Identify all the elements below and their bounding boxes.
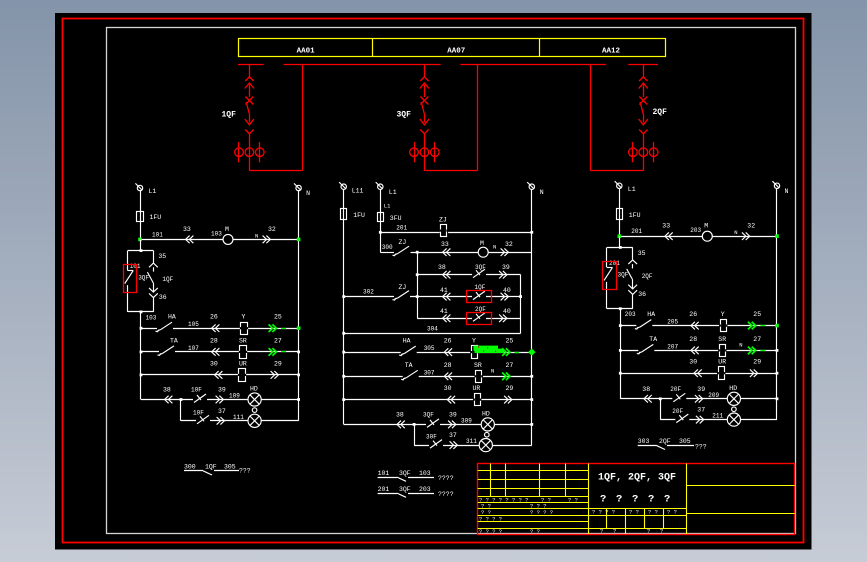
row Y: green node left bbox=[297, 326, 301, 330]
title block bottom middle texts bbox=[600, 528, 663, 535]
row UR middle: node bbox=[530, 398, 533, 401]
svg-text:????: ???? bbox=[438, 491, 454, 498]
title block middle verticals lower bbox=[607, 509, 664, 534]
svg-text:N: N bbox=[734, 229, 737, 236]
svg-text:28: 28 bbox=[444, 362, 452, 369]
title block right section horizontals bbox=[686, 486, 795, 514]
fuse 1FU middle bbox=[341, 209, 366, 220]
fuse 3FU middle bbox=[378, 213, 402, 223]
svg-text:203: 203 bbox=[690, 227, 701, 234]
row UR: coil UR right bbox=[619, 359, 777, 380]
svg-text:27: 27 bbox=[753, 336, 761, 343]
row SR: green arrow 27 left bbox=[269, 337, 286, 355]
motor M left bbox=[223, 226, 233, 245]
svg-text:?: ? bbox=[600, 528, 603, 535]
svg-text:307: 307 bbox=[424, 369, 435, 376]
svg-text:UR: UR bbox=[473, 385, 481, 392]
svg-text:1FU: 1FU bbox=[629, 212, 641, 219]
feeder drop 3QF bbox=[420, 64, 429, 142]
row lamp2: contact 10F left bbox=[193, 409, 210, 424]
svg-text:209: 209 bbox=[708, 392, 719, 399]
title block small texts row2 bbox=[481, 503, 547, 510]
svg-text:39: 39 bbox=[449, 411, 457, 418]
CT circles feeder 1 bbox=[235, 142, 264, 162]
svg-text:3QF: 3QF bbox=[423, 411, 434, 418]
svg-text:? ? ? ?: ? ? ? ? bbox=[479, 528, 502, 535]
row lamp2 middle: branch bbox=[414, 424, 532, 445]
row HD middle: junction bbox=[413, 423, 416, 426]
left bottom note 300 1QF 305 bbox=[184, 464, 251, 476]
svg-text:1FU: 1FU bbox=[353, 212, 365, 219]
svg-text:305: 305 bbox=[679, 438, 691, 445]
svg-text:207: 207 bbox=[667, 343, 678, 350]
svg-text:305: 305 bbox=[224, 464, 236, 471]
svg-text:? ?: ? ? bbox=[667, 509, 677, 516]
svg-text:303: 303 bbox=[638, 438, 650, 445]
svg-text:???: ??? bbox=[239, 468, 251, 475]
row SR: coil SR left bbox=[210, 337, 247, 358]
svg-text:41: 41 bbox=[440, 287, 448, 294]
svg-text:TA: TA bbox=[649, 336, 657, 343]
svg-text:39: 39 bbox=[697, 386, 705, 393]
svg-text:3QF: 3QF bbox=[475, 264, 486, 271]
label 2QF bbox=[653, 108, 668, 117]
main wire 101 left bbox=[140, 226, 299, 243]
row M middle: motor bbox=[411, 240, 532, 257]
svg-text:311: 311 bbox=[466, 438, 477, 445]
label AA01 bbox=[297, 47, 316, 55]
svg-text:201: 201 bbox=[378, 486, 390, 493]
svg-text:29: 29 bbox=[753, 359, 761, 366]
svg-text:TA: TA bbox=[170, 337, 178, 344]
row SR: node right bbox=[776, 349, 779, 352]
svg-text:37: 37 bbox=[697, 407, 705, 414]
branch merge node 203 right bbox=[607, 307, 636, 399]
svg-text:203: 203 bbox=[419, 486, 431, 493]
svg-text:211: 211 bbox=[712, 413, 723, 420]
CT circles feeder 3 bbox=[410, 142, 439, 162]
svg-text:305: 305 bbox=[424, 345, 435, 352]
inner white border frame bbox=[107, 28, 796, 534]
row SR: contact TA right bbox=[619, 336, 777, 354]
svg-text:25: 25 bbox=[506, 338, 514, 345]
svg-text:????: ???? bbox=[438, 475, 454, 482]
bus segment 3 bbox=[460, 64, 606, 66]
title block middle small texts bbox=[592, 509, 677, 516]
svg-text:? ? ? ?: ? ? ? ? bbox=[530, 509, 553, 516]
row Y: coil Y left bbox=[210, 314, 248, 335]
svg-text:? ?: ? ? bbox=[648, 509, 658, 516]
svg-text:20F: 20F bbox=[670, 386, 681, 393]
row SR middle: green arrow 27 bbox=[502, 362, 513, 380]
title block horizontal row4 bbox=[478, 528, 686, 530]
svg-text:1FU: 1FU bbox=[150, 214, 162, 221]
title block left grid verticals bbox=[491, 464, 566, 497]
svg-text:33: 33 bbox=[662, 223, 670, 230]
svg-text:? ? ? ?: ? ? ? ? bbox=[592, 509, 615, 516]
svg-text:30: 30 bbox=[444, 385, 452, 392]
svg-text:AA07: AA07 bbox=[447, 47, 465, 55]
svg-text:103: 103 bbox=[211, 230, 222, 237]
svg-text:300: 300 bbox=[382, 244, 393, 251]
breaker aux contact 3QF right bbox=[604, 247, 629, 308]
contact chain 1QF left bbox=[147, 251, 173, 312]
lamp terminal circle middle bbox=[485, 432, 490, 437]
svg-text:38: 38 bbox=[396, 411, 404, 418]
svg-text:304: 304 bbox=[427, 325, 438, 332]
title block small texts row4 bbox=[479, 516, 502, 523]
svg-text:29: 29 bbox=[506, 385, 514, 392]
svg-text:AA12: AA12 bbox=[602, 47, 621, 55]
row Y middle: green arrow 25 bbox=[502, 338, 519, 356]
title block horizontal row3 bbox=[478, 521, 589, 523]
svg-text:27: 27 bbox=[506, 362, 514, 369]
row HD middle: node bbox=[530, 423, 533, 426]
svg-text:HA: HA bbox=[647, 311, 655, 318]
terminal N left bbox=[294, 183, 310, 197]
svg-text:309: 309 bbox=[461, 417, 472, 424]
terminal L1 left bbox=[135, 183, 156, 195]
svg-text:32: 32 bbox=[268, 226, 276, 233]
terminal N right bbox=[772, 181, 788, 195]
row lamp2: contact 20F right bbox=[672, 408, 689, 423]
row UR middle: coil UR bbox=[342, 385, 532, 406]
svg-text:33: 33 bbox=[441, 241, 449, 248]
svg-text:SR: SR bbox=[474, 362, 482, 369]
row lamp2 middle: contact 3QF bbox=[426, 434, 443, 449]
svg-text:2QF: 2QF bbox=[659, 438, 671, 445]
rail N middle bbox=[531, 189, 533, 445]
row Y middle: coil Y bbox=[444, 338, 479, 359]
svg-text:35: 35 bbox=[638, 250, 646, 257]
lamp terminal circle right bbox=[732, 407, 737, 412]
lamp 2 middle bbox=[479, 439, 492, 452]
svg-text:39: 39 bbox=[502, 264, 510, 271]
svg-text:40: 40 bbox=[503, 287, 511, 294]
wire 304 middle bbox=[342, 325, 520, 334]
svg-text:205: 205 bbox=[667, 319, 678, 326]
rail N left bbox=[298, 191, 300, 421]
svg-text:ZJ: ZJ bbox=[439, 217, 447, 224]
svg-text:30: 30 bbox=[689, 359, 697, 366]
rail N right bbox=[776, 189, 778, 420]
row HD: contact 20F right bbox=[670, 386, 686, 402]
label AA07 bbox=[447, 47, 465, 55]
svg-text:Y: Y bbox=[242, 314, 246, 321]
svg-text:Y: Y bbox=[721, 311, 725, 318]
bus segment 4 bbox=[628, 64, 658, 66]
svg-text:40: 40 bbox=[503, 308, 511, 315]
fuse 1FU right bbox=[617, 209, 641, 220]
feeder drop 1QF bbox=[245, 64, 254, 142]
rail L11 middle bbox=[343, 189, 345, 424]
svg-text:26: 26 bbox=[444, 338, 452, 345]
svg-text:?: ? bbox=[660, 528, 663, 535]
row lamp2: arrow 37 right bbox=[696, 407, 724, 424]
svg-text:37: 37 bbox=[449, 432, 457, 439]
feeder 2 loop wires bbox=[591, 64, 644, 170]
row 3QF middle bbox=[416, 264, 521, 278]
svg-text:3QF: 3QF bbox=[399, 470, 411, 477]
row HD: arrow 39 right bbox=[695, 386, 720, 403]
svg-text:HA: HA bbox=[403, 338, 411, 345]
label AA12 bbox=[602, 47, 621, 55]
svg-text:36: 36 bbox=[159, 294, 167, 301]
svg-text:10F: 10F bbox=[193, 409, 204, 416]
row UR: node left bbox=[297, 374, 300, 377]
svg-text:HD: HD bbox=[482, 410, 490, 417]
svg-text:1QF, 2QF, 3QF: 1QF, 2QF, 3QF bbox=[598, 473, 676, 484]
row Y middle: contact HA bbox=[342, 338, 532, 356]
title block red border bbox=[478, 464, 795, 535]
branch merge node 103 left bbox=[128, 311, 157, 400]
row Y middle: green diamond node bbox=[528, 348, 535, 355]
svg-text:203: 203 bbox=[625, 311, 636, 318]
svg-text:N: N bbox=[255, 232, 258, 239]
svg-text:L1: L1 bbox=[149, 188, 157, 195]
title block vertical divider big cell left bbox=[588, 464, 590, 535]
svg-text:N: N bbox=[493, 244, 496, 251]
title block small texts row5 bbox=[479, 528, 540, 535]
red highlight box 1QF middle bbox=[467, 291, 492, 303]
svg-text:101: 101 bbox=[152, 231, 163, 238]
bus segment 1 bbox=[238, 64, 264, 66]
red highlight box left bbox=[124, 265, 137, 293]
row Y: coil Y right bbox=[689, 311, 727, 332]
green node right right bbox=[775, 234, 779, 238]
right bottom note 303 2QF 305 bbox=[638, 438, 707, 451]
svg-text:N: N bbox=[306, 190, 310, 197]
row SR: green arrow 27 right bbox=[748, 336, 765, 354]
svg-text:L1: L1 bbox=[384, 203, 391, 210]
green node left right bbox=[618, 234, 622, 238]
svg-text:? ?: ? ? bbox=[629, 509, 639, 516]
svg-text:35: 35 bbox=[158, 253, 166, 260]
svg-text:32: 32 bbox=[505, 241, 513, 248]
svg-text:?: ? bbox=[632, 494, 638, 506]
fuse 1FU left bbox=[137, 212, 162, 222]
lamp HD left bbox=[248, 386, 261, 407]
svg-text:UR: UR bbox=[239, 360, 247, 367]
outer red border frame bbox=[63, 19, 804, 543]
svg-text:39: 39 bbox=[218, 387, 226, 394]
svg-text:L11: L11 bbox=[352, 188, 364, 195]
row HD: junction left bbox=[180, 398, 183, 401]
terminal L1 right bbox=[615, 181, 636, 193]
svg-text:37: 37 bbox=[218, 408, 226, 415]
terminal L1 middle bbox=[376, 182, 397, 209]
title block vertical divider big cell right bbox=[686, 464, 688, 535]
title block horizontal lower bbox=[478, 515, 686, 517]
svg-text:?: ? bbox=[647, 528, 650, 535]
row SR middle: contact TA bbox=[342, 362, 532, 380]
row UR: coil UR left bbox=[140, 360, 299, 381]
svg-text:N: N bbox=[785, 188, 789, 195]
contact chain 2QF right bbox=[627, 247, 653, 308]
svg-text:32: 32 bbox=[747, 223, 755, 230]
svg-text:N: N bbox=[739, 341, 742, 348]
svg-text:3FU: 3FU bbox=[390, 215, 402, 222]
svg-text:ZJ: ZJ bbox=[399, 284, 407, 291]
title block small texts row1 bbox=[479, 496, 578, 503]
svg-text:? ? ? ?: ? ? ? ? bbox=[479, 516, 502, 523]
rail L1 left bbox=[140, 191, 142, 239]
svg-text:103: 103 bbox=[146, 314, 157, 321]
svg-text:1QF: 1QF bbox=[205, 464, 217, 471]
lamp HD right bbox=[727, 385, 740, 406]
breaker aux contact 3QF left bbox=[125, 251, 150, 312]
svg-text:20F: 20F bbox=[672, 408, 683, 415]
row SR: contact TA left bbox=[140, 337, 299, 355]
svg-text:?: ? bbox=[600, 494, 606, 506]
svg-text:10F: 10F bbox=[191, 387, 202, 394]
svg-text:29: 29 bbox=[274, 360, 282, 367]
row lamp2 middle: arrow 37 bbox=[449, 432, 477, 449]
row HD: contact 10F left bbox=[191, 387, 207, 403]
svg-text:N: N bbox=[491, 367, 494, 374]
svg-text:2QF: 2QF bbox=[642, 273, 653, 280]
terminal N middle bbox=[527, 182, 544, 196]
svg-text:27: 27 bbox=[274, 337, 282, 344]
label 1QF bbox=[222, 111, 237, 120]
row SR: node left bbox=[297, 351, 300, 354]
svg-text:111: 111 bbox=[233, 414, 244, 421]
feeder drop 2QF bbox=[639, 64, 648, 142]
title block small texts row3 bbox=[481, 509, 553, 516]
svg-text:33: 33 bbox=[183, 226, 191, 233]
row 2QF middle bbox=[417, 306, 520, 322]
title text 1QF 2QF 3QF bbox=[598, 473, 676, 484]
svg-text:38: 38 bbox=[163, 387, 171, 394]
svg-text:201: 201 bbox=[631, 228, 642, 235]
rail L1 middle bbox=[380, 189, 382, 252]
svg-text:30: 30 bbox=[210, 360, 218, 367]
svg-text:28: 28 bbox=[210, 337, 218, 344]
svg-text:?: ? bbox=[613, 528, 616, 535]
green node left left bbox=[138, 238, 142, 242]
svg-text:41: 41 bbox=[440, 308, 448, 315]
row SR middle: node bbox=[530, 375, 533, 378]
svg-text:2QF: 2QF bbox=[653, 108, 668, 117]
green node right left bbox=[297, 238, 301, 242]
branch split right bbox=[607, 236, 633, 249]
title block horizontal under text row bbox=[478, 502, 589, 504]
title question marks bbox=[600, 494, 670, 506]
svg-text:HD: HD bbox=[250, 386, 258, 393]
svg-text:HD: HD bbox=[729, 385, 737, 392]
row HD: wire right bbox=[620, 386, 777, 403]
svg-text:Y: Y bbox=[472, 338, 476, 345]
svg-text:2QF: 2QF bbox=[475, 306, 486, 313]
svg-text:? ?: ? ? bbox=[568, 496, 578, 503]
svg-text:SR: SR bbox=[718, 336, 726, 343]
svg-text:3QF: 3QF bbox=[399, 486, 411, 493]
title block horizontal mid bbox=[478, 508, 686, 510]
middle bottom note 201 3QF 203 bbox=[378, 486, 454, 498]
busbar box AA01/AA07/AA12 bbox=[239, 39, 666, 57]
svg-text:???: ??? bbox=[695, 444, 707, 451]
selection highlight green bar bbox=[474, 346, 505, 353]
svg-text:1QF: 1QF bbox=[222, 111, 237, 120]
svg-text:M: M bbox=[225, 226, 229, 233]
row HD: junction right bbox=[659, 397, 662, 400]
svg-text:HA: HA bbox=[168, 314, 176, 321]
row Y: green node right bbox=[775, 324, 779, 328]
svg-text:SR: SR bbox=[239, 337, 247, 344]
svg-text:3QF: 3QF bbox=[618, 271, 629, 278]
row lamp2: arrow 37 left bbox=[217, 408, 245, 425]
feeder 3 loop wires bbox=[424, 64, 477, 170]
svg-text:107: 107 bbox=[188, 345, 199, 352]
wire 201 with relay coil ZJ bbox=[379, 217, 533, 238]
svg-text:UR: UR bbox=[718, 359, 726, 366]
row Y: green arrow 25 right bbox=[748, 311, 765, 329]
middle bottom note 101 3QF 103 bbox=[378, 470, 454, 482]
svg-text:AA01: AA01 bbox=[297, 47, 316, 55]
interlock right rail bbox=[520, 275, 522, 334]
main wire 201 right bbox=[619, 223, 777, 240]
lamp terminal circle left bbox=[252, 408, 257, 413]
svg-text:L1: L1 bbox=[389, 189, 397, 196]
title block left grid horizontals bbox=[478, 471, 589, 497]
svg-text:? ?: ? ? bbox=[530, 528, 540, 535]
svg-text:101: 101 bbox=[378, 470, 390, 477]
svg-text:?: ? bbox=[648, 494, 654, 506]
svg-text:109: 109 bbox=[229, 393, 240, 400]
row SR middle: coil SR bbox=[444, 362, 495, 383]
svg-text:?: ? bbox=[664, 494, 670, 506]
row Y: contact HA left bbox=[140, 314, 299, 332]
rail L1 right bbox=[619, 189, 621, 236]
lamp 2 right bbox=[727, 413, 740, 426]
feeder 1 loop wires bbox=[249, 64, 302, 170]
svg-text:N: N bbox=[540, 189, 544, 196]
terminal L11 middle bbox=[339, 182, 363, 194]
row SR: coil SR right bbox=[689, 336, 742, 357]
svg-text:25: 25 bbox=[753, 311, 761, 318]
row Y: green arrow 25 left bbox=[269, 314, 286, 332]
row HD: node left bbox=[297, 398, 300, 401]
red highlight box right bbox=[603, 262, 617, 290]
branch split left bbox=[128, 239, 154, 252]
row 1QF middle wire 302 bbox=[342, 284, 522, 300]
svg-text:201: 201 bbox=[396, 224, 407, 231]
motor M right bbox=[702, 223, 712, 242]
svg-text:ZJ: ZJ bbox=[399, 239, 407, 246]
row HD: arrow 39 left bbox=[216, 387, 241, 404]
red highlight box 2QF middle bbox=[467, 313, 492, 325]
row HD middle: wire bbox=[344, 411, 532, 428]
interlock spine bbox=[417, 252, 419, 318]
label 3QF bbox=[397, 111, 412, 120]
svg-text:36: 36 bbox=[638, 291, 646, 298]
svg-text:105: 105 bbox=[188, 321, 199, 328]
svg-text:28: 28 bbox=[689, 336, 697, 343]
row HD: wire left bbox=[141, 387, 299, 404]
svg-text:25: 25 bbox=[274, 314, 282, 321]
svg-text:302: 302 bbox=[363, 289, 374, 296]
svg-text:M: M bbox=[480, 240, 484, 247]
svg-text:30F: 30F bbox=[426, 434, 437, 441]
svg-text:38: 38 bbox=[438, 264, 446, 271]
svg-text:26: 26 bbox=[210, 314, 218, 321]
svg-text:1QF: 1QF bbox=[162, 276, 173, 283]
bus segment 2 bbox=[284, 64, 441, 66]
svg-text:103: 103 bbox=[419, 470, 431, 477]
lamp 2 left bbox=[248, 414, 261, 427]
svg-text:?: ? bbox=[616, 494, 622, 506]
row HD middle: arrow 39 bbox=[448, 411, 472, 428]
